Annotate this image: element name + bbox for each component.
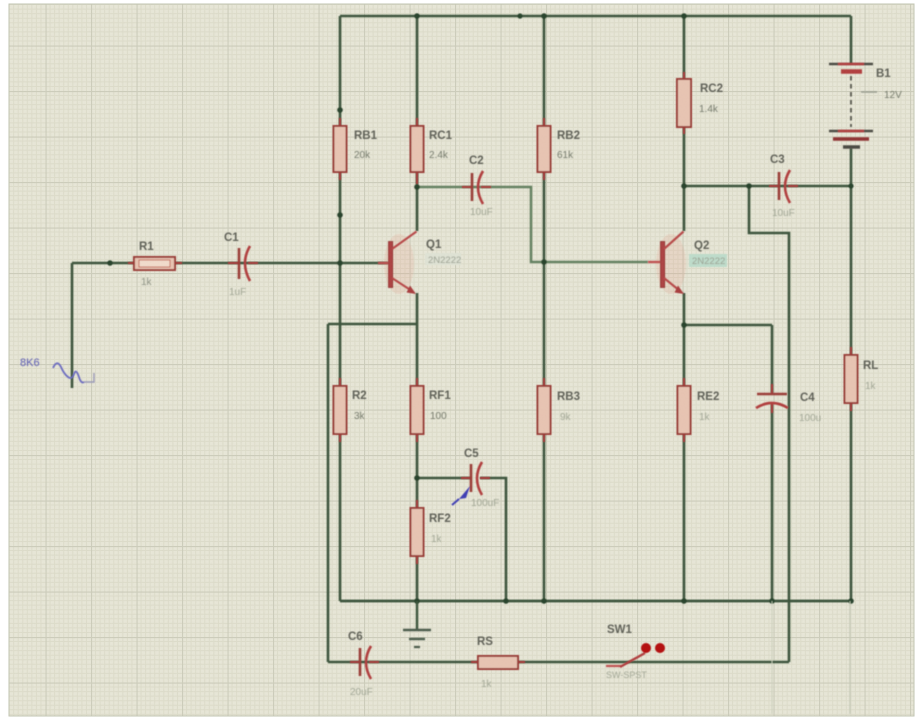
- battery B1: [829, 64, 902, 147]
- capacitor C1: [224, 232, 258, 298]
- wire C4 top lead vertical: [771, 325, 774, 393]
- wire C4 bottom lead vertical: [771, 404, 774, 601]
- node RB2 base2: [541, 259, 547, 265]
- wire bottom feedback branch: [328, 661, 789, 664]
- wire Q1 emitter horizontal: [328, 323, 417, 326]
- resistor RB2: [538, 118, 581, 180]
- capacitor C5: [461, 448, 499, 509]
- node bus C5: [503, 598, 509, 604]
- resistor RL: [845, 347, 879, 411]
- node output RL top: [848, 183, 853, 188]
- switch SW1: [606, 624, 665, 680]
- resistor RC1: [411, 118, 453, 184]
- capacitor C2: [462, 155, 493, 218]
- node rail RB2: [541, 13, 547, 19]
- ground: [403, 601, 431, 647]
- wire C2 branch from RC1: [417, 187, 648, 262]
- resistor RF2: [411, 500, 451, 564]
- node feedback tap: [746, 183, 752, 189]
- wire Q2 emitter horizontal to C4: [684, 324, 772, 327]
- resistor R2: [334, 378, 367, 442]
- node rail RC1: [414, 13, 420, 19]
- capacitor C6: [348, 631, 379, 698]
- node input: [107, 260, 113, 266]
- node RC2 C3: [681, 183, 687, 189]
- capacitor C3: [769, 154, 798, 219]
- wire left bias vertical RB1/R2 column: [339, 16, 342, 601]
- wire C5 branch: [417, 477, 471, 480]
- signal source: [20, 357, 94, 382]
- wire feedback tap from output: [749, 186, 789, 662]
- cursor arrow at C5: [452, 486, 470, 505]
- node rail RC2: [681, 13, 687, 19]
- resistor RB3: [538, 378, 581, 442]
- transistor Q1: [378, 232, 461, 295]
- wire top power rail: [340, 15, 851, 18]
- node bus RB3: [541, 598, 547, 604]
- node bus ground: [414, 598, 420, 604]
- resistor RB1: [334, 118, 378, 180]
- resistor RS: [471, 636, 525, 690]
- node RC1 C2: [414, 184, 420, 190]
- artifact faint vertical right: [849, 601, 851, 714]
- node RF1 C5: [414, 475, 420, 481]
- resistor RF1: [411, 378, 452, 442]
- wire Q1 emitter vertical: [416, 293, 419, 324]
- wire input source vertical: [71, 263, 74, 388]
- wire output C3 horizontal: [684, 185, 851, 188]
- node Q2 emitter: [681, 322, 687, 328]
- wire ground bus: [340, 600, 851, 603]
- resistor RC2: [677, 72, 723, 134]
- node bus RL: [848, 598, 854, 604]
- wire RB2 RB3 vertical: [543, 16, 546, 601]
- capacitor C4: [756, 384, 821, 424]
- wire battery RL vertical: [850, 16, 853, 601]
- node rail stray: [517, 13, 522, 18]
- wire input horizontal to Q1 base: [72, 262, 388, 265]
- node bus C4: [769, 598, 775, 604]
- wire RC1 collector vertical: [416, 16, 419, 231]
- wire Q2 emitter vertical: [683, 293, 686, 601]
- wire feedback left vertical: [327, 324, 330, 662]
- resistor RE2: [678, 378, 720, 442]
- node bus RE2: [681, 598, 687, 604]
- resistor R1: [128, 241, 182, 288]
- wire RC2 collector vertical: [683, 16, 686, 231]
- wire RF1 RF2 vertical: [416, 324, 419, 601]
- node bias lower: [337, 212, 343, 218]
- node bias upper: [337, 107, 343, 113]
- transistor Q2: [648, 232, 727, 295]
- node Q1 base: [337, 260, 343, 266]
